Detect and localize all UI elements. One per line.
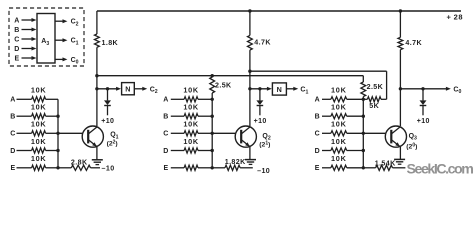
svg-text:A: A bbox=[14, 17, 19, 24]
svg-text:4.7K: 4.7K bbox=[254, 39, 271, 47]
svg-text:N: N bbox=[277, 85, 283, 94]
svg-text:C: C bbox=[315, 131, 320, 138]
svg-text:B: B bbox=[10, 114, 15, 121]
svg-text:+10: +10 bbox=[417, 118, 430, 125]
svg-text:A: A bbox=[315, 97, 320, 104]
svg-text:10K: 10K bbox=[331, 120, 347, 129]
svg-text:E: E bbox=[10, 165, 15, 172]
svg-text:B: B bbox=[14, 27, 19, 34]
svg-text:2.5K: 2.5K bbox=[215, 81, 232, 89]
svg-text:+10: +10 bbox=[254, 118, 267, 125]
svg-text:–10: –10 bbox=[257, 167, 270, 175]
svg-text:10K: 10K bbox=[183, 103, 199, 112]
svg-text:B: B bbox=[315, 114, 320, 121]
svg-text:C: C bbox=[163, 131, 168, 138]
svg-text:10K: 10K bbox=[31, 137, 47, 146]
svg-text:+ 28: + 28 bbox=[446, 13, 463, 22]
svg-text:C: C bbox=[10, 131, 15, 138]
svg-text:D: D bbox=[14, 46, 19, 53]
svg-text:10K: 10K bbox=[183, 86, 199, 95]
svg-text:4.7K: 4.7K bbox=[405, 39, 422, 47]
svg-text:(21): (21) bbox=[259, 140, 270, 148]
svg-text:E: E bbox=[14, 55, 19, 62]
svg-text:–10: –10 bbox=[102, 164, 115, 172]
svg-text:10K: 10K bbox=[331, 86, 347, 95]
svg-text:SeekIC.com: SeekIC.com bbox=[407, 162, 474, 177]
svg-text:10K: 10K bbox=[331, 137, 347, 146]
svg-text:E: E bbox=[163, 165, 168, 172]
svg-text:10K: 10K bbox=[31, 120, 47, 129]
svg-text:10K: 10K bbox=[331, 103, 347, 112]
svg-text:N: N bbox=[125, 85, 131, 94]
svg-text:10K: 10K bbox=[183, 120, 199, 129]
svg-text:E: E bbox=[315, 165, 320, 172]
svg-text:D: D bbox=[10, 148, 15, 155]
svg-text:2.5K: 2.5K bbox=[367, 83, 384, 91]
svg-text:10K: 10K bbox=[31, 86, 47, 95]
svg-text:2.8K: 2.8K bbox=[71, 158, 88, 166]
svg-text:A: A bbox=[163, 97, 168, 104]
svg-text:10K: 10K bbox=[31, 103, 47, 112]
svg-text:10K: 10K bbox=[331, 154, 347, 163]
svg-text:D: D bbox=[315, 148, 320, 155]
svg-text:5K: 5K bbox=[369, 102, 379, 110]
svg-text:10K: 10K bbox=[183, 137, 199, 146]
svg-text:1.82K: 1.82K bbox=[225, 158, 246, 166]
svg-text:1.54K: 1.54K bbox=[375, 159, 396, 167]
svg-text:(22): (22) bbox=[107, 139, 118, 147]
svg-text:+10: +10 bbox=[101, 118, 114, 125]
svg-text:C: C bbox=[14, 36, 19, 43]
svg-text:B: B bbox=[163, 114, 168, 121]
svg-text:D: D bbox=[163, 148, 168, 155]
svg-text:10K: 10K bbox=[31, 154, 47, 163]
svg-text:(20): (20) bbox=[406, 142, 417, 150]
svg-text:1.8K: 1.8K bbox=[102, 39, 119, 47]
svg-text:A: A bbox=[10, 97, 15, 104]
